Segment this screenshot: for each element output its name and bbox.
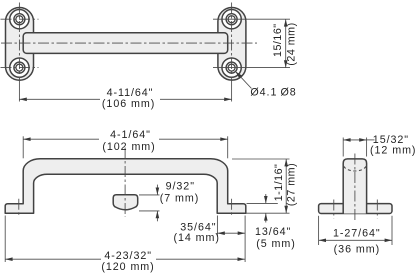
svg-text:(14 mm): (14 mm): [173, 232, 219, 244]
svg-text:(12 mm): (12 mm): [370, 145, 416, 157]
side hole centerline right: [376, 200, 378, 219]
hole top-right inner: [228, 16, 235, 23]
handle vertical centerline: [124, 148, 126, 218]
extension line 14 left: [216, 216, 218, 237]
right mounting plate: [218, 8, 246, 81]
side centerline: [354, 154, 356, 223]
hole centerline / extension bottom-right: [213, 67, 290, 69]
extension line oval bottom: [139, 210, 160, 212]
svg-text:(102 mm): (102 mm): [102, 141, 155, 153]
right extension line down: [231, 82, 233, 102]
svg-text:(120 mm): (120 mm): [101, 261, 154, 273]
extension line grip top right: [232, 158, 290, 160]
hidden grip curve: [344, 166, 367, 171]
dimension line 35/64: [217, 232, 245, 234]
hole bottom-right inner: [228, 64, 235, 71]
svg-text:4-1/64": 4-1/64": [110, 129, 151, 141]
svg-text:(27 mm): (27 mm): [285, 163, 297, 206]
extension line 36 left: [318, 216, 320, 245]
grip post: [343, 159, 366, 214]
side hole centerline left: [333, 200, 335, 219]
hole bottom-right middle: [226, 62, 237, 73]
svg-text:13/64": 13/64": [255, 226, 291, 238]
svg-text:(106 mm): (106 mm): [102, 98, 155, 110]
svg-text:4-23/32": 4-23/32": [104, 250, 152, 262]
extension line 102 right: [227, 136, 229, 158]
svg-text:1-1/16": 1-1/16": [273, 164, 285, 202]
extension line 120 left: [4, 216, 6, 263]
leader line for hole callout: [236, 72, 252, 89]
dim 13/64 arrows: [265, 194, 267, 203]
grip cross-section detail: [113, 195, 138, 210]
extension line 12 right: [366, 138, 368, 157]
extension line 102 left: [22, 136, 24, 158]
svg-text:9/32": 9/32": [166, 180, 195, 192]
hole top-left middle: [14, 14, 25, 25]
extension line 12 left: [342, 138, 344, 157]
dimension line 1-27/64: [319, 239, 392, 241]
hole top-right middle: [226, 14, 237, 25]
hole centerline bottom-left: [1, 67, 39, 69]
main horizontal centerline: [1, 42, 257, 44]
dimension line 4-1/64: [23, 138, 99, 140]
left extension line down: [18, 82, 20, 102]
hole top-left outer: [10, 10, 29, 29]
dimension line 4-23/32: [5, 258, 101, 260]
hole centerline top-left: [1, 18, 39, 20]
dimension line 1-1/16: [285, 159, 287, 213]
dim 9/32 arrows: [156, 185, 158, 195]
hole bottom-left middle: [14, 62, 25, 73]
extension line oval top: [139, 194, 160, 196]
handle body outline: [5, 159, 246, 214]
svg-text:(36 mm): (36 mm): [334, 243, 380, 255]
dimension line 15/32: [343, 139, 366, 141]
hole bottom-left outer: [10, 58, 29, 77]
dimension line 15/16 vertical: [285, 19, 287, 67]
extension line 120/14 right: [244, 216, 246, 263]
left foot screw centerline: [18, 199, 20, 217]
svg-text:(7 mm): (7 mm): [160, 193, 200, 205]
hole centerline / extension top-right: [213, 18, 290, 20]
left mounting plate: [6, 8, 34, 81]
base plate: [319, 204, 392, 214]
extension line foot top right: [247, 202, 278, 204]
hole top-left inner: [16, 16, 23, 23]
right plate vertical centerline: [231, 3, 233, 83]
extension line 36 right: [391, 216, 393, 245]
left plate vertical centerline: [18, 3, 20, 83]
hole top-right outer: [222, 10, 241, 29]
dimension line 4-11/64: [19, 98, 100, 100]
svg-text:1-27/64": 1-27/64": [333, 228, 381, 240]
hole bottom-left inner: [16, 64, 23, 71]
extension line foot bottom right: [247, 212, 290, 214]
svg-text:(5 mm): (5 mm): [256, 238, 296, 250]
grip bar (top view): [23, 33, 228, 54]
svg-text:(24 mm): (24 mm): [286, 22, 298, 65]
svg-text:15/16": 15/16": [272, 23, 284, 57]
svg-text:4-11/64": 4-11/64": [107, 87, 154, 99]
svg-text:Ø4.1 Ø8: Ø4.1 Ø8: [250, 86, 296, 98]
right foot screw centerline: [231, 199, 233, 217]
hole bottom-right outer: [222, 58, 241, 77]
